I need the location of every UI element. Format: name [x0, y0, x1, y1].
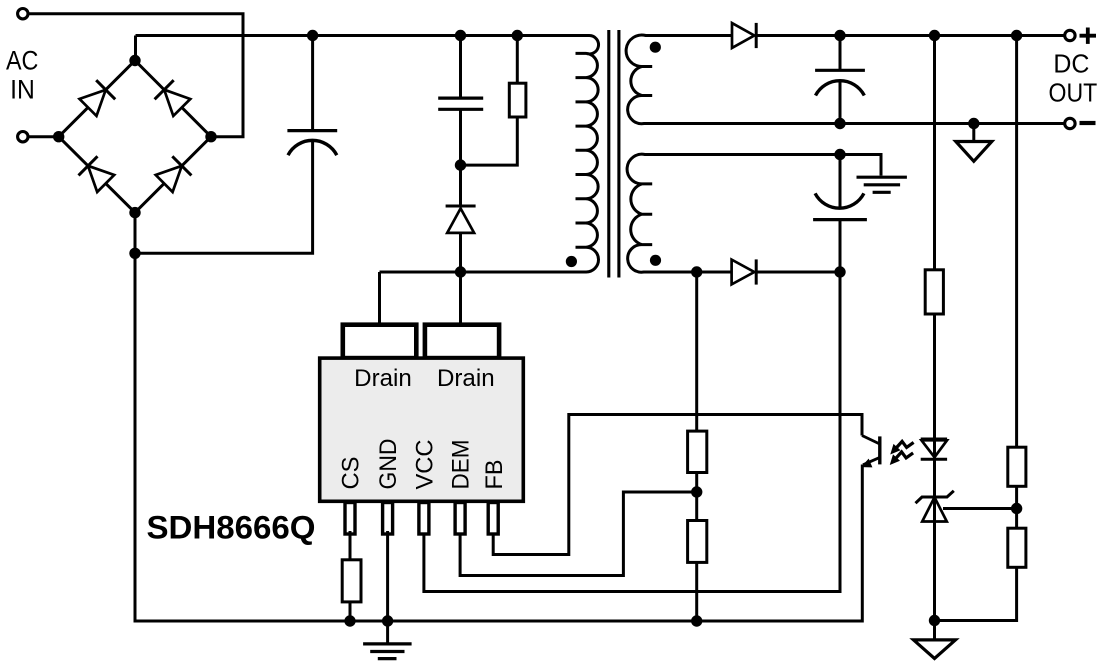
transformer T1 primary winding [566, 36, 599, 273]
diode D3 aux [732, 260, 755, 285]
ground symbol earth (IC) [363, 642, 412, 645]
terminal AC neutral [18, 132, 28, 142]
ic U1 pin VCC [419, 503, 429, 535]
svg-text:GND: GND [375, 439, 402, 490]
transformer T1 secondary winding [626, 35, 662, 124]
ic U1 pin FB [488, 503, 498, 535]
svg-text:CS: CS [338, 457, 365, 490]
svg-text:SDH8666Q: SDH8666Q [147, 510, 316, 546]
wire C3 top [839, 36, 842, 71]
wire C2 bottom [459, 109, 462, 165]
wire right divider bottom [935, 567, 1017, 620]
capacitor C4 curved plate [815, 193, 864, 208]
wire FB link [493, 415, 862, 555]
resistor R7 current sense [342, 560, 361, 602]
wire HV top rail [136, 34, 582, 37]
svg-text:DEM: DEM [448, 440, 475, 490]
svg-text:IN: IN [10, 74, 35, 104]
node bridge bottom [129, 207, 140, 218]
wire drain stub left [378, 272, 381, 326]
node reference tap [1011, 503, 1022, 514]
wire DEM link [460, 492, 697, 576]
capacitor C1 plate + [287, 129, 337, 132]
resistor R1 [509, 83, 526, 117]
resistor R4 LED feed [925, 270, 943, 314]
wire AC live to bridge right node [28, 14, 243, 137]
wire AC neutral to bridge left node [28, 135, 59, 138]
svg-text:Drain: Drain [437, 365, 495, 392]
wire zener reference [943, 507, 1017, 510]
capacitor C4 flat plate [813, 218, 867, 221]
capacitor C2 plate 1 [438, 96, 483, 99]
opto LED D4 [921, 438, 947, 441]
node R1 at HV rail [512, 30, 523, 41]
wire D5 to primary node [459, 233, 462, 272]
transformer T1 auxiliary winding [627, 154, 662, 272]
resistor R6 lower [1008, 528, 1026, 567]
capacitor C1 plate - (curved) [288, 140, 337, 155]
capacitor C2 plate 2 [438, 108, 483, 111]
wire divider bottom [695, 562, 698, 622]
svg-text:DC: DC [1053, 50, 1089, 78]
diode D2 output [732, 23, 754, 48]
node C3 at - rail [834, 118, 845, 129]
ground symbol output (triangle) [972, 124, 975, 142]
ic U1 body SDH8666Q [320, 358, 524, 501]
diode D5 triangle [447, 208, 474, 233]
wire bridge bottom down to ground rail [134, 213, 137, 623]
wire bridge edge bottom-left [59, 137, 135, 213]
wire GND stem [386, 621, 389, 644]
transformer T1 auxiliary phase dot [650, 255, 661, 266]
wire C1 bottom [135, 142, 313, 253]
terminal DC plus [1065, 30, 1075, 40]
ic U1 pin CS [345, 503, 355, 535]
opto light arrow 2 [896, 452, 913, 458]
wire C4 bottom [839, 220, 842, 272]
wire bridge edge bottom-right [135, 137, 211, 213]
zener Z1 cathode bar [916, 491, 954, 503]
wire R1 bottom to snubber node [461, 117, 518, 165]
node output cap at + rail [834, 30, 845, 41]
node VCC reservoir [834, 266, 845, 277]
node bridge top [129, 55, 140, 66]
wire right divider top [1015, 36, 1018, 448]
svg-text:VCC: VCC [412, 440, 439, 490]
opto light arrow 1 [897, 441, 914, 447]
wire LED to zener [933, 459, 936, 521]
node aux ground [834, 149, 845, 160]
transformer T1 primary phase dot [566, 256, 577, 267]
wire divider middle [695, 473, 698, 521]
node drain junction [455, 266, 466, 277]
wire VCC link [424, 272, 840, 592]
ic U1 drain tab right [425, 325, 499, 358]
wire zener to ground node [933, 522, 936, 623]
node snubber junction [455, 159, 466, 170]
ground symbol earth (primary) [857, 176, 907, 179]
ic U1 pin GND [383, 503, 393, 535]
wire secondary to D2 [655, 34, 732, 37]
node C1 at HV rail [307, 30, 318, 41]
opto transistor Q1 [862, 436, 880, 445]
wire R1 top [516, 36, 519, 84]
diode bridge D1c [88, 166, 114, 192]
wire C1 top [311, 36, 314, 131]
wire D3 to VCC node [756, 271, 840, 274]
transformer T1 core [607, 30, 610, 278]
svg-text:AC: AC [6, 46, 38, 76]
node bridge left [53, 131, 64, 142]
resistor R5 upper [1008, 447, 1026, 486]
capacitor C3 plate - (curved) [816, 81, 865, 96]
ground symbol secondary (triangle) [933, 621, 936, 640]
node C1 return at bridge [129, 248, 140, 259]
wire aux node to earth [840, 155, 881, 176]
wire divider top [695, 272, 698, 431]
wire C2 top [459, 36, 462, 99]
diode bridge D1a [80, 90, 106, 116]
svg-text:OUT: OUT [1049, 80, 1098, 108]
node aux divider tap [691, 266, 702, 277]
label minus sign [1080, 121, 1096, 125]
node output ground tap [968, 118, 979, 129]
terminal DC minus [1065, 118, 1075, 128]
capacitor C3 plate + [815, 69, 865, 72]
node divider at ground rail [691, 615, 702, 626]
node GND at ground rail [382, 615, 393, 626]
wire secondary return rail [645, 122, 1065, 125]
wire CS pin down [349, 531, 352, 560]
wire D2 to DC+ terminal [756, 34, 1064, 37]
wire snubber node to D5 [459, 165, 462, 206]
wire LED branch upper [933, 36, 936, 270]
terminal AC live [18, 9, 28, 19]
wire R4 to LED [933, 314, 936, 459]
node secondary ground [929, 615, 940, 626]
ic U1 pin DEM [455, 503, 465, 535]
wire primary ground rail [135, 620, 862, 623]
wire aux top lead [646, 153, 840, 156]
transformer T1 secondary phase dot [650, 42, 661, 53]
node bridge right [205, 131, 216, 142]
label plus sign [1080, 34, 1097, 38]
wire GND pin down [386, 531, 389, 625]
svg-text:FB: FB [481, 460, 508, 490]
wire bridge edge top-left [59, 61, 135, 137]
diode bridge D1b [164, 90, 190, 116]
svg-text:Drain: Drain [354, 365, 412, 392]
node opto feed at + rail [929, 30, 940, 41]
node C2 at HV rail [455, 30, 466, 41]
ic U1 drain tab left [343, 325, 417, 358]
diode D5 cathode bar [446, 205, 476, 208]
resistor R2 divider upper [688, 431, 707, 472]
wire aux bottom lead [645, 271, 732, 274]
wire drain stub right [459, 272, 462, 326]
wire primary bottom bus [380, 271, 572, 274]
node DEM tap [691, 486, 702, 497]
node divider at + rail [1011, 30, 1022, 41]
zener Z1 triangle [922, 497, 947, 521]
wire R7 to ground rail [349, 602, 352, 623]
diode bridge D1d [156, 166, 182, 192]
node CS at ground rail [344, 615, 355, 626]
wire bridge edge top-right [135, 61, 211, 137]
resistor R3 divider lower [688, 521, 707, 563]
wire right divider middle [1015, 486, 1018, 528]
wire opto emitter down [861, 465, 864, 623]
wire bridge top to HV rail [134, 36, 137, 61]
wire C3 bottom [839, 82, 842, 124]
